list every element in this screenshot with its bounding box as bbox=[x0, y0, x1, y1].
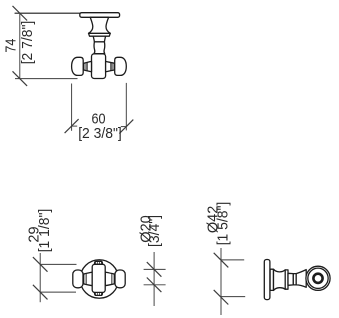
left knob (front view) bbox=[73, 270, 83, 288]
trumpet neck with flange ring (top view) bbox=[89, 17, 111, 36]
tapered stem segment bbox=[93, 36, 105, 42]
tick bottom bbox=[13, 71, 28, 86]
dim stub left bbox=[72, 125, 78, 127]
svg-text:[1 5/8"]: [1 5/8"] bbox=[215, 202, 231, 246]
top knurled cap (front view) bbox=[94, 261, 102, 264]
dim line Ø20 bbox=[153, 252, 155, 306]
extension line bottom bbox=[221, 296, 245, 298]
tick top bbox=[214, 253, 229, 268]
left knob neck knurl hatch bbox=[84, 63, 88, 71]
tick right bbox=[119, 120, 133, 134]
ball outer circle bbox=[306, 266, 330, 290]
wall line bbox=[15, 12, 80, 14]
left neck (front view) bbox=[83, 272, 92, 286]
right neck knurl hatch bbox=[112, 274, 115, 285]
extension line bottom bbox=[15, 78, 78, 80]
svg-text:[1 1/8"]: [1 1/8"] bbox=[37, 209, 53, 253]
left neck knurl hatch bbox=[84, 274, 87, 285]
svg-text:[2 3/8"]: [2 3/8"] bbox=[78, 126, 122, 142]
left knob (top view) bbox=[72, 57, 84, 75]
bottom cap hatch bbox=[96, 293, 102, 296]
spool cap (side view) bbox=[270, 269, 273, 290]
extension line left bbox=[71, 84, 73, 131]
right knob neck (top view) bbox=[106, 61, 115, 71]
bulged stem segment bbox=[94, 42, 105, 54]
dim stub right bbox=[121, 126, 127, 128]
tick top bbox=[13, 6, 28, 21]
tick bottom bbox=[33, 285, 48, 300]
right knob (front view) bbox=[115, 270, 125, 288]
extension line top bbox=[40, 263, 76, 265]
tick top bbox=[147, 262, 162, 277]
tick left bbox=[65, 119, 79, 133]
right knob (top view) bbox=[115, 57, 127, 75]
right knob neck knurl hatch bbox=[110, 63, 114, 71]
cone to ball (side view) bbox=[296, 270, 306, 288]
hook body (top view) bbox=[92, 54, 106, 79]
wall plate (side view) bbox=[264, 260, 270, 300]
tick top bbox=[33, 257, 48, 272]
wall flange plate (top view) bbox=[80, 13, 120, 18]
svg-text:[3/4"]: [3/4"] bbox=[147, 215, 163, 247]
stem joint band bbox=[293, 274, 296, 285]
bottom knurled cap (front view) bbox=[94, 292, 102, 295]
dim line 29 bbox=[39, 253, 41, 302]
spool waist and rim (side view) bbox=[274, 269, 289, 290]
tick bottom bbox=[147, 278, 162, 293]
top cap hatch bbox=[96, 261, 102, 264]
ball second circle bbox=[308, 268, 328, 288]
left knob neck (top view) bbox=[83, 61, 91, 71]
svg-text:[2 7/8"]: [2 7/8"] bbox=[20, 21, 36, 65]
extension line top bbox=[221, 259, 244, 261]
stem (side view) bbox=[288, 273, 293, 285]
dim line 74 bbox=[19, 13, 21, 78]
dim line Ø42 bbox=[220, 248, 222, 315]
dash top bbox=[144, 268, 166, 270]
ball inner ring bbox=[313, 274, 322, 283]
svg-text:74: 74 bbox=[3, 38, 19, 52]
extension line right bbox=[125, 83, 127, 130]
svg-text:60: 60 bbox=[91, 111, 105, 127]
spool rim inner line bbox=[284, 270, 286, 289]
flange circle (front view) bbox=[80, 260, 119, 299]
body cartridge (front view) bbox=[92, 264, 105, 292]
extension line bottom bbox=[40, 291, 76, 293]
right neck (front view) bbox=[105, 272, 115, 286]
tick bottom bbox=[214, 290, 229, 305]
dash bottom bbox=[144, 284, 166, 286]
flange ring top edge line bbox=[89, 32, 111, 34]
